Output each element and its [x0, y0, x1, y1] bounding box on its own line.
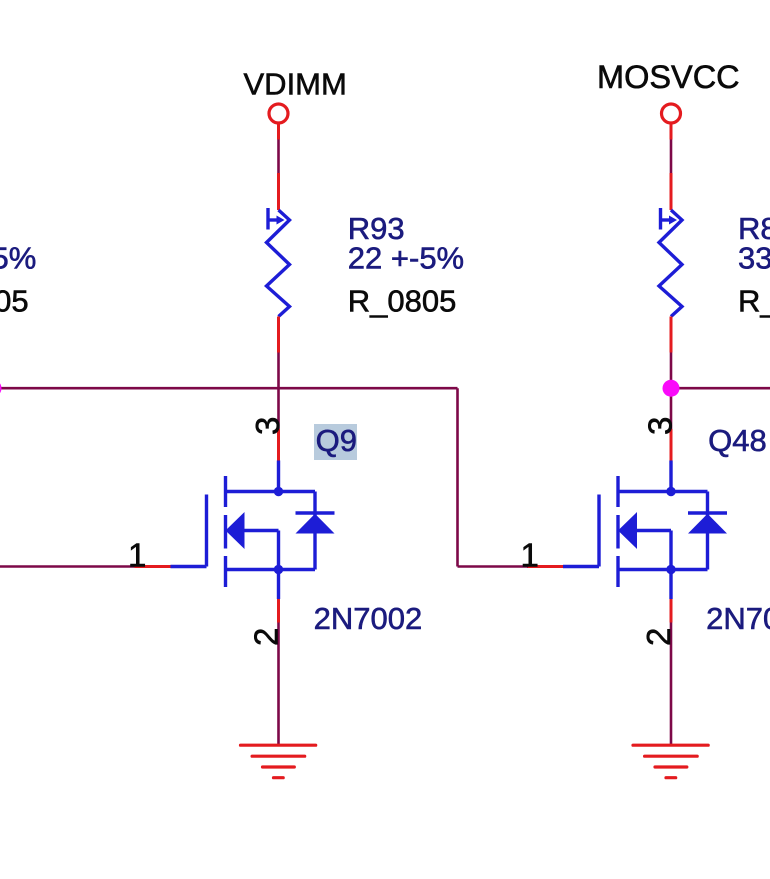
svg-text:3: 3 — [642, 417, 679, 435]
svg-text:22 +-5%: 22 +-5% — [348, 240, 464, 275]
svg-text:1: 1 — [521, 537, 539, 574]
svg-text:MOSVCC: MOSVCC — [597, 59, 740, 95]
svg-text:22 +-5%: 22 +-5% — [0, 240, 36, 275]
svg-text:R_0805: R_0805 — [738, 284, 770, 319]
svg-text:VDIMM: VDIMM — [244, 66, 347, 101]
svg-text:2N7002: 2N7002 — [706, 601, 770, 636]
svg-text:33 +-5%: 33 +-5% — [738, 240, 770, 275]
svg-text:1: 1 — [128, 537, 146, 574]
svg-text:R_0805: R_0805 — [0, 284, 29, 319]
svg-text:3: 3 — [249, 417, 286, 435]
svg-text:2N7002: 2N7002 — [314, 601, 423, 636]
svg-text:Q9: Q9 — [316, 423, 357, 458]
svg-text:Q48: Q48 — [708, 423, 767, 458]
svg-text:2: 2 — [640, 628, 677, 646]
svg-text:2: 2 — [248, 628, 285, 646]
svg-text:R_0805: R_0805 — [348, 284, 457, 319]
